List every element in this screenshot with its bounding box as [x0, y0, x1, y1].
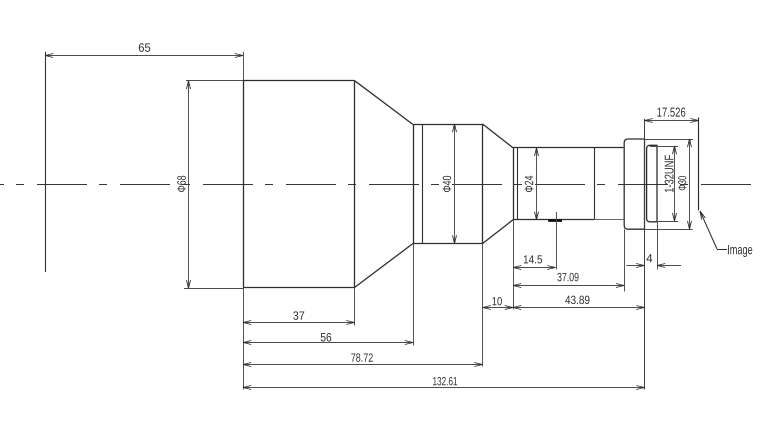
dimension 14.5: [513, 255, 556, 269]
dimension 37: [243, 311, 355, 324]
dimension 37.09: [513, 273, 624, 288]
C-mount thread ring 1-32UNF: [647, 145, 678, 269]
mount flange ring: [624, 139, 693, 292]
phi68 barrel (front cell): [243, 52, 355, 390]
conical section 68 to 40: [355, 81, 414, 288]
front reference vertical line (object side): [45, 52, 47, 272]
phi24 barrel and rear neck: [513, 148, 623, 310]
dimension 1-32UNF thread: [665, 146, 677, 221]
dimension phi40: [443, 124, 457, 244]
dimension 132.61 overall length: [243, 377, 645, 390]
conical section 40 to 24: [483, 124, 513, 244]
phi40 barrel with groove line: [413, 124, 483, 367]
dimension 4 thread protrusion: [626, 254, 681, 267]
dimension 56: [243, 333, 413, 344]
dimension 65 (front to barrel): [45, 43, 243, 57]
dimension phi68: [177, 81, 243, 289]
centerline (horizontal dash-dot axis): [0, 184, 760, 186]
flange face extension line: [644, 119, 646, 390]
reference cross mark on phi24 barrel: [548, 212, 562, 270]
dimension 17.526 flange focal distance: [645, 108, 699, 123]
dimension 10: [483, 297, 513, 310]
dimension phi24: [525, 148, 539, 220]
Image plane leader and label: [700, 211, 752, 257]
dimension 43.89: [513, 296, 645, 310]
dimension phi30 flange: [678, 139, 691, 229]
image plane line: [698, 118, 700, 211]
dimension 78.72: [243, 353, 483, 366]
